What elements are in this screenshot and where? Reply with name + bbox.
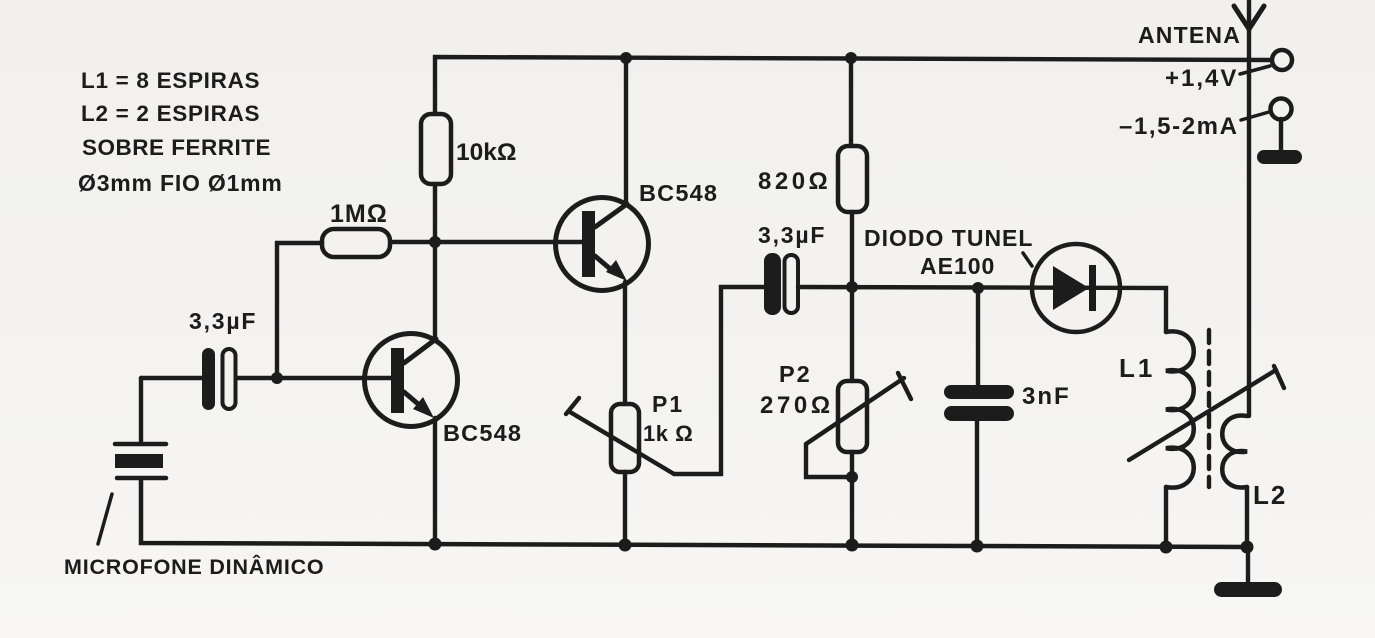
capacitor C2 3,3µF: [758, 222, 826, 315]
transistor Q2 emitter line with arrow: [595, 256, 627, 281]
transistor Q1 collector line: [404, 339, 436, 363]
svg-text:BC548: BC548: [639, 180, 718, 206]
svg-text:3,3µF: 3,3µF: [189, 308, 257, 334]
note text L1/L2 espiras: [78, 68, 283, 196]
svg-text:1MΩ: 1MΩ: [330, 200, 388, 228]
capacitor C1 3,3µF: [189, 308, 257, 410]
antenna arrowhead: [1234, 6, 1264, 29]
svg-text:L1 = 8 ESPIRAS: L1 = 8 ESPIRAS: [81, 68, 260, 93]
node 820 bottom dot: [846, 281, 858, 293]
svg-text:AE100: AE100: [920, 253, 995, 279]
node 820 top dot: [845, 52, 857, 64]
tunnel diode D1 circle: [1032, 244, 1120, 332]
wire L1 bottom: [1164, 487, 1168, 548]
node L2 ground dot: [1241, 541, 1254, 554]
inductor L2 coil: [1222, 415, 1247, 487]
transistor Q1 BC548 circle: [365, 334, 458, 427]
svg-text:MICROFONE DINÂMICO: MICROFONE DINÂMICO: [64, 554, 324, 579]
svg-text:270Ω: 270Ω: [760, 392, 834, 419]
svg-text:ANTENA: ANTENA: [1138, 22, 1241, 48]
svg-text:SOBRE FERRITE: SOBRE FERRITE: [82, 135, 271, 160]
svg-text:P1: P1: [652, 391, 684, 417]
node base Q2 junction dot: [429, 236, 441, 248]
wire P2 wiper to bottom: [806, 444, 852, 477]
node P1 ground dot: [619, 539, 632, 552]
P2 wiper diagonal arrow: [806, 373, 911, 444]
wire Q1 emitter down: [433, 418, 437, 545]
terminal +1,4V circle: [1272, 50, 1292, 70]
terminal -1,5-2mA circle: [1271, 99, 1292, 120]
wire C2 to diode and L1: [798, 287, 1166, 332]
ferrite core dashed line: [1207, 330, 1211, 487]
svg-text:3,3µF: 3,3µF: [758, 222, 826, 248]
wire base rail to Q2: [391, 240, 582, 244]
wire Q2 collector up: [624, 58, 628, 204]
svg-text:+1,4V: +1,4V: [1165, 65, 1238, 92]
node Q1 emitter ground dot: [429, 538, 442, 551]
transistor Q1 base bar: [391, 348, 404, 413]
node L1 ground dot: [1160, 541, 1173, 554]
wire P1 wiper to C2: [674, 287, 764, 474]
microphone pointer line: [98, 494, 112, 544]
pointer +1,4V: [1240, 66, 1270, 74]
wire 1M left down to C1 node: [277, 243, 322, 378]
inductor L1 coil: [1166, 331, 1194, 487]
transistor Q2 collector line: [595, 204, 627, 227]
wire C1 to Q1 base: [235, 376, 392, 380]
antenna wire down to L2: [1247, 0, 1251, 416]
pointer -1,5-2mA: [1241, 112, 1269, 120]
node P2 ground dot: [846, 539, 859, 552]
wire P1 bottom to ground: [623, 472, 627, 546]
svg-text:BC548: BC548: [443, 420, 522, 446]
node 3nF top dot: [972, 282, 984, 294]
node C1 junction dot: [271, 372, 283, 384]
svg-text:L1: L1: [1119, 353, 1155, 383]
resistor 1MΩ: [322, 229, 390, 257]
svg-text:P2: P2: [779, 361, 812, 387]
wire Q1 collector up: [433, 242, 437, 339]
node 3nF ground dot: [971, 540, 984, 553]
node Q2 collector top dot: [620, 52, 632, 64]
wire Q2 emitter down to P1: [623, 282, 627, 404]
svg-text:L2 = 2 ESPIRAS: L2 = 2 ESPIRAS: [81, 101, 260, 126]
P1 wiper diagonal arrow: [566, 398, 674, 474]
svg-text:L2: L2: [1253, 480, 1287, 510]
wire C1 node down to microphone: [139, 378, 143, 441]
tuning arrow through coils: [1129, 366, 1284, 460]
transistor Q1 emitter line with arrow: [404, 392, 434, 418]
potentiometer P2 body: [838, 287, 867, 546]
svg-text:DIODO TUNEL: DIODO TUNEL: [864, 225, 1033, 251]
svg-text:820Ω: 820Ω: [758, 168, 831, 195]
wire microphone to ground rail: [141, 480, 1248, 547]
microphone symbol: [115, 444, 166, 478]
svg-text:–1,5-2mA: –1,5-2mA: [1119, 113, 1239, 140]
wire L2 bottom: [1245, 487, 1249, 548]
potentiometer P1 body: [611, 404, 639, 472]
svg-text:3nF: 3nF: [1022, 383, 1071, 410]
wire 10k bottom to base node: [433, 184, 437, 242]
top supply rail wire: [435, 57, 1272, 114]
svg-text:Ø3mm FIO Ø1mm: Ø3mm FIO Ø1mm: [78, 170, 283, 196]
diode pointer line: [1023, 253, 1032, 266]
resistor 820Ω: [758, 58, 867, 287]
svg-text:1k Ω: 1k Ω: [643, 421, 693, 446]
wire mic to C1: [141, 376, 202, 380]
diode triangle: [1053, 266, 1089, 310]
ground symbol bottom right: [1214, 547, 1282, 597]
svg-text:10kΩ: 10kΩ: [456, 139, 517, 166]
transistor Q2 BC548 circle: [556, 198, 649, 291]
resistor 10kΩ: [421, 114, 451, 184]
capacitor 3nF: [944, 288, 1071, 547]
diode cathode bar: [1089, 265, 1096, 311]
transistor Q2 base bar: [582, 211, 595, 277]
node P2 wiper dot: [846, 471, 858, 483]
battery negative bar: [1257, 119, 1302, 164]
